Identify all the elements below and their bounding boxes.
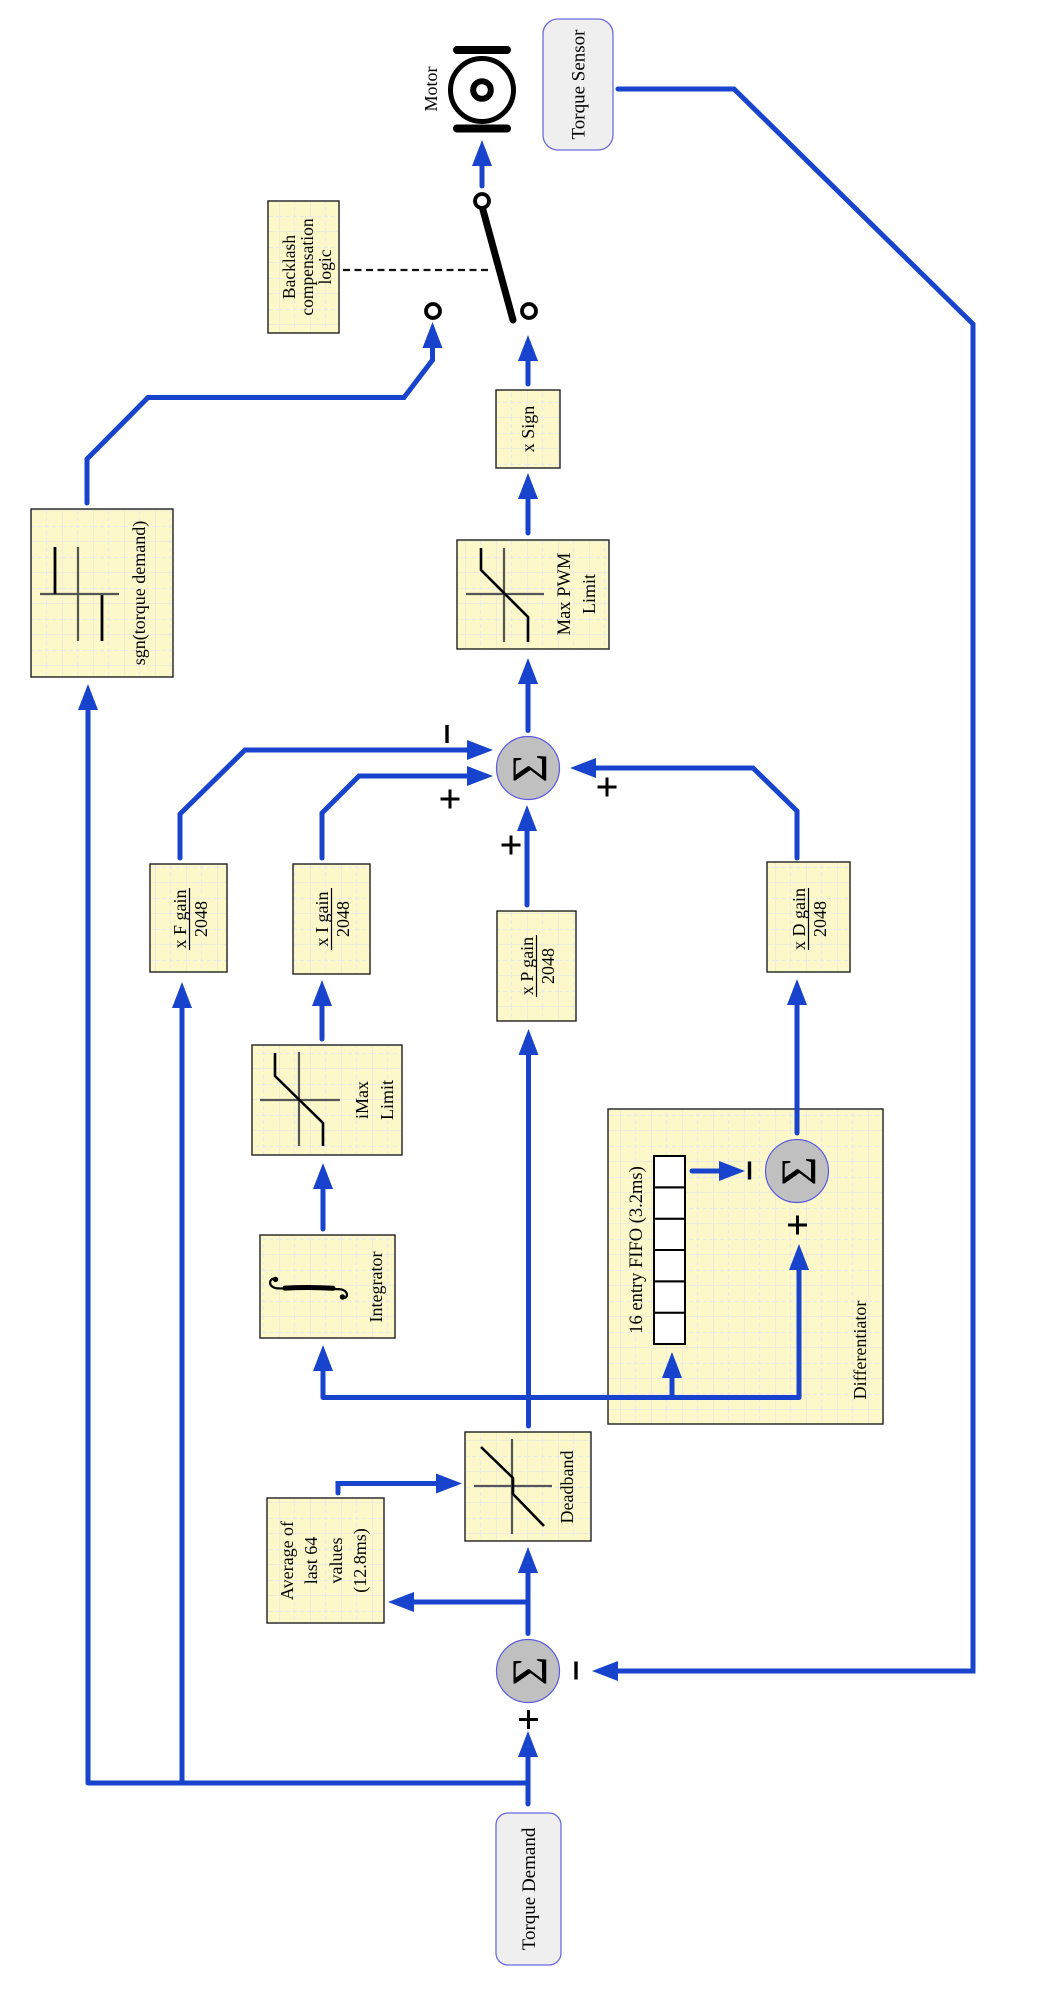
svg-text:Differentiator: Differentiator <box>850 1301 870 1400</box>
svg-text:x Sign: x Sign <box>518 406 538 453</box>
svg-text:Torque Demand: Torque Demand <box>519 1827 540 1950</box>
svg-text:Backlash: Backlash <box>279 235 299 299</box>
svg-text:logic: logic <box>315 249 335 284</box>
svg-text:sgn(torque demand): sgn(torque demand) <box>129 521 150 665</box>
svg-text:(12.8ms): (12.8ms) <box>350 1528 371 1593</box>
svg-text:2048: 2048 <box>191 901 211 937</box>
svg-text:Limit: Limit <box>579 574 599 614</box>
svg-text:Σ: Σ <box>501 753 557 782</box>
svg-text:16 entry FIFO (3.2ms): 16 entry FIFO (3.2ms) <box>627 1166 647 1334</box>
svg-text:2048: 2048 <box>538 948 558 984</box>
svg-text:Σ: Σ <box>501 1656 557 1685</box>
svg-text:x D gain: x D gain <box>789 888 809 950</box>
svg-text:Max PWM: Max PWM <box>555 553 575 636</box>
svg-text:Integrator: Integrator <box>366 1252 386 1323</box>
svg-text:Deadband: Deadband <box>557 1451 577 1524</box>
svg-text:last 64: last 64 <box>301 1537 321 1585</box>
svg-text:Σ: Σ <box>770 1156 826 1185</box>
svg-text:2048: 2048 <box>333 901 353 937</box>
svg-text:x P gain: x P gain <box>517 937 537 995</box>
svg-text:Torque Sensor: Torque Sensor <box>569 29 590 140</box>
svg-text:values: values <box>326 1538 346 1584</box>
svg-text:x I gain: x I gain <box>312 892 332 947</box>
svg-text:Motor: Motor <box>421 66 441 111</box>
svg-text:2048: 2048 <box>810 901 830 937</box>
svg-text:compensation: compensation <box>297 218 317 315</box>
svg-text:iMax: iMax <box>352 1081 372 1119</box>
svg-text:x F gain: x F gain <box>170 889 190 948</box>
svg-text:Average of: Average of <box>277 1521 297 1600</box>
svg-text:Limit: Limit <box>377 1080 397 1120</box>
